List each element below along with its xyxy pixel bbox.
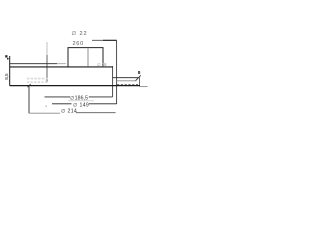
node left margin mark top xyxy=(5,55,7,57)
wire leader line horizontal from Ø22 text xyxy=(92,39,117,41)
svg-text:∅ 214: ∅ 214 xyxy=(61,109,77,115)
node tick at x=29 on bottom line xyxy=(28,84,31,87)
svg-text:∅ 22: ∅ 22 xyxy=(72,30,88,37)
node collar rectangle outline xyxy=(68,48,103,67)
dimension row2 line y=103.8 xyxy=(52,103,72,105)
svg-text:∅ 48: ∅ 48 xyxy=(97,62,107,67)
wire left extension line x=47 fading xyxy=(46,42,48,55)
wire left body vertical x=9.7 xyxy=(9,56,11,86)
wire right lip edge vertical x=139.5 xyxy=(139,78,141,87)
wire flange bottom line y=66.9 xyxy=(10,66,113,68)
wire flange top line y=63.7 xyxy=(10,63,57,65)
node dimension tick on lip line xyxy=(135,75,140,81)
wire bottom line gray continuation xyxy=(140,86,148,88)
node faint underline row1 xyxy=(68,100,94,102)
wire right lip top line y=77.6 xyxy=(113,77,139,79)
node faint hatch text rows left-middle xyxy=(27,78,48,80)
wire extension vertical x=29 below body xyxy=(28,86,30,113)
svg-text:8: 8 xyxy=(138,70,141,76)
wire step vertical x=112.5 xyxy=(112,66,114,97)
svg-text:260: 260 xyxy=(73,41,84,47)
node stray dot xyxy=(46,106,47,107)
wire main bottom line y=85.6 xyxy=(10,85,140,87)
dimension row1 line y=96.9 xyxy=(45,96,71,98)
wire dashed hidden line above bottom right xyxy=(117,84,138,86)
dimension row3 line y=112.9 xyxy=(29,112,60,114)
svg-text:8,5: 8,5 xyxy=(4,73,9,80)
wire right lip inner line y=80.7 xyxy=(117,80,137,82)
wire inner wall line x=88 xyxy=(87,48,89,66)
wire leader extension vertical x=116.5 xyxy=(116,40,118,104)
